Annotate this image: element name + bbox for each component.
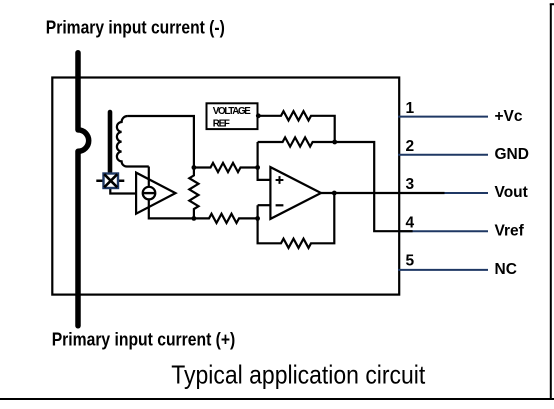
- svg-text:Vref: Vref: [495, 222, 525, 239]
- svg-text:Primary input current (+): Primary input current (+): [52, 329, 236, 349]
- svg-text:5: 5: [406, 253, 415, 270]
- svg-text:REF: REF: [213, 119, 230, 130]
- svg-text:GND: GND: [495, 146, 529, 163]
- svg-text:Vout: Vout: [495, 184, 528, 201]
- svg-text:2: 2: [406, 138, 415, 155]
- svg-text:Primary input current (-): Primary input current (-): [46, 17, 225, 37]
- svg-text:4: 4: [406, 214, 415, 231]
- svg-text:3: 3: [406, 176, 415, 193]
- svg-text:+Vc: +Vc: [495, 108, 523, 125]
- svg-text:1: 1: [406, 100, 415, 117]
- svg-text:NC: NC: [495, 261, 517, 278]
- svg-text:VOLTAGE: VOLTAGE: [213, 106, 251, 117]
- svg-text:Typical application circuit: Typical application circuit: [171, 360, 426, 390]
